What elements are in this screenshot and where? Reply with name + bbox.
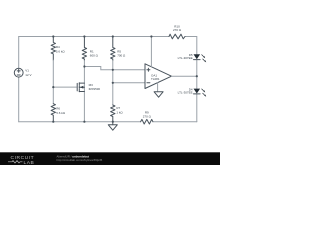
svg-text:LAB: LAB <box>24 160 35 165</box>
wire right vertical mid <box>196 60 198 89</box>
wire op-amp positive supply <box>150 37 152 67</box>
svg-text:1 kΩ: 1 kΩ <box>116 110 123 114</box>
wire left vertical lower <box>18 77 20 122</box>
LED D4 <box>178 87 207 96</box>
resistor R4 <box>51 37 65 61</box>
footer bar <box>0 152 220 165</box>
svg-text:270 Ω: 270 Ω <box>143 114 152 118</box>
wire left vertical upper <box>18 37 20 69</box>
node gate <box>52 86 54 88</box>
svg-text:LTL-307EE: LTL-307EE <box>178 56 193 60</box>
wire R4 to R6 column <box>52 60 54 104</box>
op-amp OA1 <box>145 64 172 89</box>
svg-text:5.6 kΩ: 5.6 kΩ <box>56 111 66 115</box>
svg-text:IRF9530: IRF9530 <box>89 87 101 91</box>
svg-text:12 V: 12 V <box>25 73 31 77</box>
node minus input <box>112 82 114 84</box>
resistor R6 <box>51 104 66 122</box>
wire right vertical top <box>185 37 197 55</box>
wire right vertical bottom <box>196 94 198 122</box>
node bottom R6 <box>52 121 54 123</box>
wire bottom rail <box>19 121 141 123</box>
node top op-amp supply <box>150 35 152 37</box>
svg-text:http://circuitlab.com/c/bytkva: http://circuitlab.com/c/bytkvar65jk35 <box>57 158 103 162</box>
resistor R9 <box>141 111 153 124</box>
wire op-amp output <box>172 75 197 77</box>
resistor R7 <box>111 105 124 122</box>
ground below R7 <box>108 122 117 131</box>
svg-text:5.6 kΩ: 5.6 kΩ <box>56 49 66 53</box>
wire bottom right segment <box>153 121 197 123</box>
node plus input <box>112 69 114 71</box>
node bottom R7 <box>112 121 114 123</box>
transistor M3 <box>77 83 100 92</box>
voltage source V1 <box>14 68 31 77</box>
wire R5 column down to R7 <box>112 61 114 106</box>
resistor R1 <box>82 37 98 61</box>
wire minus input <box>113 82 145 84</box>
wire node A step to op-amp plus input <box>84 67 145 70</box>
wire op-amp negative supply <box>157 83 159 92</box>
node output <box>196 75 198 77</box>
node top R5 <box>112 35 114 37</box>
wire gate feed <box>53 86 76 88</box>
svg-text:TL081: TL081 <box>151 77 160 81</box>
node bottom mosfet <box>83 121 85 123</box>
node top R1 <box>83 35 85 37</box>
resistor R10 <box>169 24 185 39</box>
svg-text:LTL-307EE: LTL-307EE <box>178 91 193 95</box>
LED D5 <box>178 53 207 63</box>
footer CircuitLab logo <box>8 155 34 166</box>
resistor R5 <box>111 37 126 61</box>
svg-text:600 Ω: 600 Ω <box>90 54 99 58</box>
node top R4 <box>52 35 54 37</box>
svg-text:270 Ω: 270 Ω <box>173 28 182 32</box>
node A <box>83 65 85 67</box>
wire R1 to mosfet column <box>83 61 85 122</box>
ground below op-amp <box>154 92 163 97</box>
wire top rail <box>19 36 169 38</box>
svg-text:700 Ω: 700 Ω <box>117 54 126 58</box>
